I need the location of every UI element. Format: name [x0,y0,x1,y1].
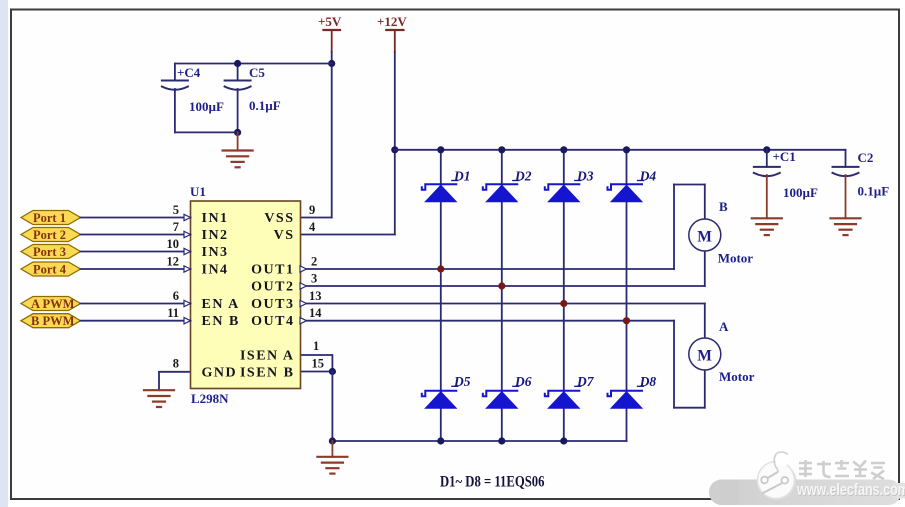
node bottom bus D5 [437,437,444,444]
svg-text:C5: C5 [249,65,265,80]
svg-text:10: 10 [167,237,180,251]
svg-text:B PWM: B PWM [31,314,75,328]
svg-text:B: B [719,199,728,214]
svg-text:Port 3: Port 3 [33,245,66,259]
wire +12V top bus [395,149,846,151]
port B PWM [21,314,81,329]
node top bus D3 [560,146,567,153]
wire OUT1 pin2 [300,268,674,270]
svg-text:OUT4: OUT4 [251,314,294,329]
wire A PWM to EN A [81,303,191,305]
svg-text:ISEN A: ISEN A [240,348,295,363]
svg-text:15: 15 [312,356,325,370]
wire D2/D6 column [501,150,503,441]
wire Port2 to IN2 [81,234,191,236]
op IC U1 L298N body [191,201,301,389]
wire motor A bracket bottom [674,407,705,409]
wire D4/D8 column [626,150,628,441]
svg-text:VSS: VSS [264,211,294,226]
ground under C2 [831,218,861,235]
svg-text:U1: U1 [190,184,206,199]
ground at GND pin [144,390,174,407]
wire +5V stem down to VSS [331,52,333,218]
svg-text:2: 2 [311,255,317,269]
watermark logo elecfans [758,452,797,501]
pin arrow EN A [184,300,191,306]
watermark chinese glyph blocks [799,460,885,479]
pin arrow OUT1 [300,266,307,272]
node OUT3/D3 [560,300,567,307]
power +12V [377,14,407,52]
svg-text:Port 2: Port 2 [33,228,66,242]
port Port1 [21,211,81,226]
svg-text:Motor: Motor [718,251,754,266]
wire Port4 to IN4 [81,268,191,270]
wire Port3 to IN3 [81,251,191,253]
pin arrow IN3 [184,248,191,254]
node OUT4/D4 [623,317,630,324]
svg-text:IN2: IN2 [202,228,229,243]
power +5V [318,14,342,52]
svg-text:IN3: IN3 [202,245,229,260]
diode D6 [483,374,532,408]
svg-text:EN B: EN B [202,314,240,329]
wire ISEN B pin15 [300,371,332,373]
wire +12V stem to VS [394,52,396,235]
wire D3/D7 column [563,150,565,441]
capacitor C5 [225,64,281,133]
svg-text:ISEN B: ISEN B [240,365,295,380]
pin arrow IN1 [184,214,191,220]
ground bottom bus [317,441,347,474]
port A PWM [21,297,81,312]
node +12V / top bus junction [391,146,398,153]
node +5V / C4C5 bus junction [328,60,335,67]
wire Port1 to IN1 [81,217,191,219]
svg-text:M: M [697,348,712,365]
svg-text:D8: D8 [639,374,657,389]
svg-text:+12V: +12V [377,14,407,29]
wire motor B bracket vertical [673,185,675,270]
svg-text:A: A [719,319,729,334]
svg-text:M: M [697,229,712,246]
port Port3 [21,245,81,260]
diode D3 [545,169,594,202]
node top bus D2 [498,146,505,153]
svg-text:D4: D4 [639,169,657,184]
pin arrow OUT2 [300,283,307,289]
svg-text:C2: C2 [858,150,874,165]
svg-text:4: 4 [309,220,316,234]
wire B PWM to EN B [81,320,191,322]
wire C4/C5 top bus [175,63,332,65]
svg-text:OUT3: OUT3 [251,297,294,312]
svg-text:+C1: +C1 [773,149,796,164]
pin arrow OUT3 [300,300,307,306]
svg-text:+5V: +5V [318,14,342,29]
svg-text:OUT1: OUT1 [251,263,294,278]
diode D7 [545,374,595,408]
wire motor A bracket vertical [673,321,675,408]
diode D8 [608,374,657,408]
svg-text:D3: D3 [576,169,594,184]
diode D2 [483,169,532,202]
svg-text:VS: VS [274,228,295,243]
svg-text:D2: D2 [514,169,532,184]
node bottom bus D7 [560,437,567,444]
wire D1/D5 column [440,150,442,441]
wire motor B bottom stub [704,250,706,286]
svg-text:D6: D6 [514,374,532,389]
svg-text:6: 6 [173,289,179,303]
svg-text:Port 4: Port 4 [33,263,67,277]
node ISEN junction [329,368,336,375]
svg-text:OUT2: OUT2 [251,280,294,295]
svg-text:11: 11 [167,306,179,320]
wire bottom bus [332,440,626,442]
wire GND pin8 [159,372,191,390]
svg-text:14: 14 [309,306,322,320]
svg-text:8: 8 [173,356,179,370]
node bottom bus left [329,437,336,444]
svg-text:IN1: IN1 [202,211,229,226]
wire VSS pin9 [300,217,332,219]
pin arrow IN4 [184,266,191,272]
svg-text:+C4: +C4 [177,65,201,80]
ground under C4/C5 [223,132,253,167]
svg-text:www.elecfans.com: www.elecfans.com [796,480,905,499]
svg-text:0.1µF: 0.1µF [858,184,890,199]
svg-text:0.1µF: 0.1µF [249,98,281,113]
svg-text:A PWM: A PWM [31,297,75,311]
node bottom bus D6 [498,437,505,444]
wire OUT2 pin3 [300,285,705,287]
pin arrow OUT4 [300,318,307,324]
pin arrow EN B [184,318,191,324]
diode D5 [422,374,471,408]
svg-text:D1: D1 [453,169,471,184]
diode D4 [608,169,657,202]
wire motor B bracket top [674,184,705,186]
wire ISEN down to bottom bus [331,372,333,442]
wire ISEN A pin1 [300,355,332,372]
wire motor A top stub [704,304,706,339]
wire OUT3 pin13 [300,303,705,305]
node top bus D4 [623,146,630,153]
wire motor A bottom stub [704,370,706,408]
node C5 top junction [234,60,241,67]
node OUT1/D1 [437,265,444,272]
svg-text:7: 7 [173,220,179,234]
node C5 bottom junction [234,129,241,136]
left page edge tint [0,0,8,507]
ground under C1 [752,218,782,235]
svg-text:12: 12 [167,255,180,269]
wire OUT4 pin14 [300,320,674,322]
port Port2 [21,228,81,243]
motor B [689,199,753,266]
svg-text:GND: GND [202,365,238,380]
svg-text:IN4: IN4 [202,263,229,278]
svg-text:L298N: L298N [191,391,229,406]
port Port4 [21,262,81,277]
svg-text:Port 1: Port 1 [33,211,66,225]
diode D1 [422,169,471,202]
svg-text:100µF: 100µF [783,185,818,200]
capacitor C1 [754,149,818,218]
node top bus D1 [437,146,444,153]
svg-text:D1~ D8 = 11EQS06: D1~ D8 = 11EQS06 [440,473,544,490]
svg-text:100µF: 100µF [189,99,224,114]
capacitor C2 [833,150,890,219]
svg-text:Motor: Motor [719,369,755,384]
node OUT2/D2 [498,282,505,289]
motor A [689,319,755,384]
svg-text:1: 1 [313,339,319,353]
svg-text:D5: D5 [453,374,471,389]
svg-text:D7: D7 [576,374,595,389]
wire VS pin4 [300,234,395,236]
pin arrow IN2 [184,231,191,237]
wire C4-C5 bottom [175,131,238,133]
svg-text:9: 9 [309,203,315,217]
capacitor C4 [162,64,224,133]
node top bus C1 [763,146,770,153]
svg-text:5: 5 [173,203,179,217]
svg-text:13: 13 [309,289,322,303]
svg-text:3: 3 [311,272,317,286]
svg-text:EN A: EN A [202,297,240,312]
wire motor B top stub [704,185,706,221]
